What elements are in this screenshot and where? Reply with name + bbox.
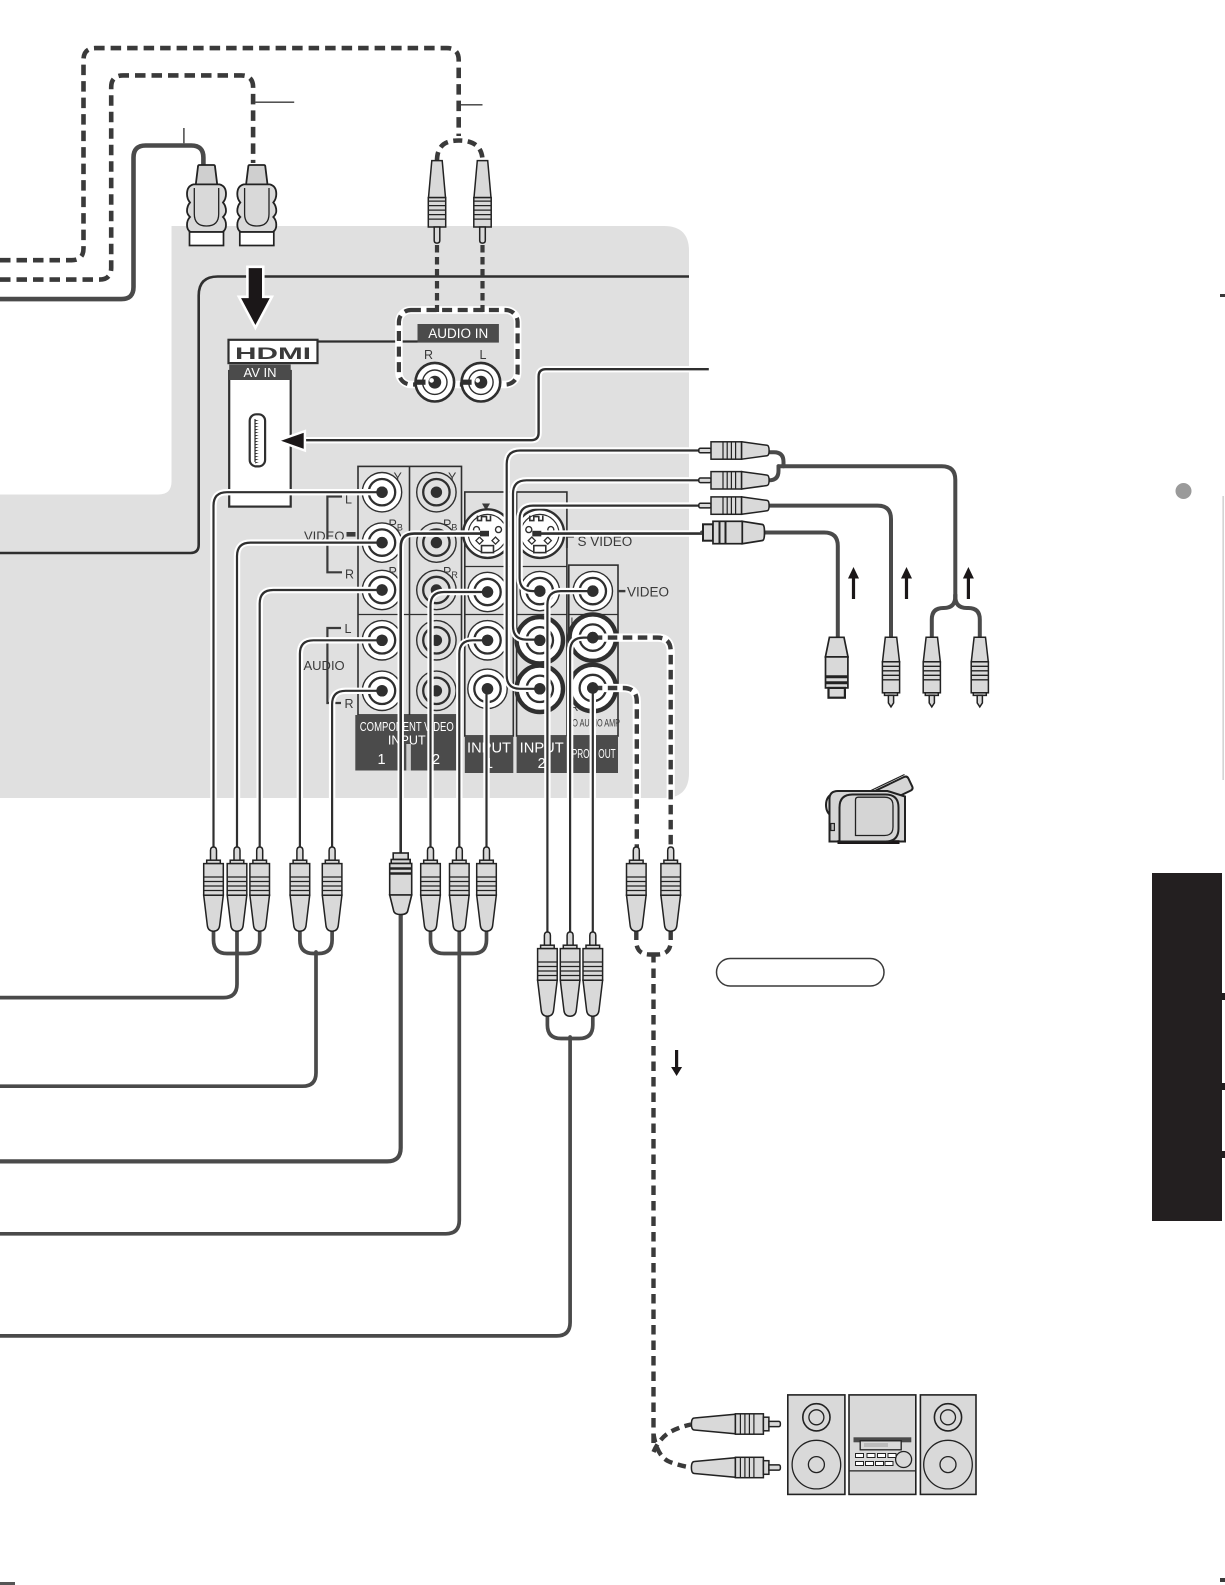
jack component2 PR: [417, 570, 456, 609]
dashed cable g5 left branch: [636, 931, 653, 955]
jack component2 Y: [417, 473, 456, 512]
cable prog out R to plug: [590, 688, 596, 932]
wire plug3 drop: [766, 506, 891, 638]
plug prog out dashed plug L: [661, 847, 681, 931]
plug input1 L plug: [450, 847, 470, 931]
svg-text:VIDEO: VIDEO: [627, 585, 669, 600]
dashed cable hdmi-dvd outer: [0, 48, 459, 260]
wire g4 merged: [0, 1037, 570, 1336]
audio in jack R: [416, 363, 455, 402]
plug S-video right (pointing left): [703, 521, 765, 543]
svg-text:AUDIO: AUDIO: [304, 658, 345, 673]
wire split right: [955, 595, 980, 638]
cable input1 s-video to plug: [401, 534, 488, 853]
plug prog out R plug: [583, 932, 603, 1016]
leader line 2: [461, 104, 483, 106]
callout line to HDMI port: [305, 369, 709, 440]
wire g3 left branch: [431, 930, 460, 954]
jack center dot c1Y: [376, 487, 387, 498]
plug audio plug L: [474, 161, 491, 244]
svg-text:INPUT: INPUT: [520, 741, 564, 757]
left arrow into HDMI port: [278, 431, 305, 450]
input2 box outline: [517, 492, 567, 736]
plug audio plug R: [428, 161, 445, 244]
jack prog out R: [570, 665, 616, 711]
s-video center pins: [480, 531, 489, 537]
plug plug to input2 R: [699, 442, 769, 459]
plug audio plug right L: [923, 637, 940, 707]
cable component1 L to plug: [300, 640, 384, 847]
wire g3 right branch: [459, 930, 486, 954]
jack component1 R: [362, 671, 401, 710]
big down arrow: [239, 267, 272, 328]
jack center dot i2V: [534, 585, 545, 596]
wire g2 merged: [0, 952, 316, 1086]
plug input1 R plug: [477, 847, 497, 931]
cable component1 R to plug: [332, 691, 384, 847]
cable component1 PR to plug: [260, 590, 384, 847]
svg-text:HDMI: HDMI: [235, 344, 311, 363]
jack input1 R: [468, 669, 507, 708]
wire g2 right branch: [316, 930, 332, 954]
white cutout top-left: [0, 220, 172, 495]
S-video jack input1 S-video: [463, 509, 512, 558]
jack center dot c1L: [376, 635, 387, 646]
wire g1 right branch: [237, 930, 260, 954]
jack center dot poL: [587, 632, 598, 643]
plug stereo plug lower: [691, 1457, 780, 1477]
svg-text:AUDIO IN: AUDIO IN: [428, 326, 488, 341]
svg-text:L: L: [345, 622, 352, 636]
plug HDMI connector 1: [187, 165, 226, 246]
svg-text:R: R: [345, 697, 354, 711]
jack input2 video: [520, 571, 559, 610]
up arrow 3: [963, 567, 974, 599]
jack center dot c1R: [376, 685, 387, 696]
cable input1 R to plug: [483, 689, 489, 847]
wire hdmi cable: [0, 146, 203, 300]
leader line HDMI badge to AUDIO IN: [318, 340, 418, 342]
wire g4 left branch: [547, 1015, 570, 1039]
wire g1 left branch: [214, 930, 238, 954]
dashed cable prog out L dashed: [593, 638, 671, 847]
dashed cable hdmi inner: [0, 75, 253, 279]
svg-text:COMPONENT VIDEO: COMPONENT VIDEO: [360, 720, 454, 734]
camcorder: [826, 775, 913, 845]
VIDEO bracket: [327, 497, 342, 573]
jack center dot i1V: [482, 586, 493, 597]
cable input1 video to plug: [431, 592, 488, 847]
plug S-video plug bottom: [390, 853, 412, 915]
prog out box outline: [569, 565, 618, 736]
plug S-video plug right: [825, 637, 848, 697]
jack input2 L: [517, 617, 563, 663]
wire split left: [932, 595, 956, 638]
dashed cable g5 merged drop: [651, 953, 655, 1448]
TV rear panel background: [0, 226, 689, 798]
dashed cable g5 right branch: [654, 931, 671, 955]
plug plug to input2 L: [699, 472, 769, 489]
dashed cable audio fork arc: [437, 141, 483, 162]
svg-text:AV IN: AV IN: [244, 365, 277, 380]
label bar INPUT 2: [517, 736, 567, 773]
dashed cable stereo branch lower: [654, 1434, 692, 1468]
note lozenge: [717, 959, 885, 987]
plug audio plug right R: [971, 637, 988, 707]
stereo right speaker: [920, 1395, 976, 1495]
plug HDMI connector 2: [237, 165, 276, 246]
jack component1 Y: [362, 473, 401, 512]
dashed cable audio stub L: [480, 245, 484, 312]
S-video jack input2 S-video: [516, 509, 565, 558]
cable prog out L solid stub: [570, 638, 593, 932]
wire plug1 elbow: [766, 452, 784, 466]
label bar COMPONENT VIDEO INPUT 1 2: [355, 715, 458, 771]
jack component1 PR: [362, 570, 401, 609]
wire g3 merged: [0, 930, 459, 1234]
cable component1 Y to plug: [214, 492, 385, 847]
jack component2 PB: [417, 523, 456, 562]
HDMI badge: [229, 340, 318, 363]
plug component1 R plug: [322, 847, 342, 931]
plug plug to input2 video: [699, 497, 769, 514]
jack center dot poV: [587, 585, 598, 596]
small down arrow: [671, 1050, 682, 1076]
cable prog out video to plug: [547, 591, 592, 932]
gray bullet dot: [1176, 483, 1192, 499]
input1 box outline: [465, 492, 514, 736]
jack center dot i1R: [482, 683, 493, 694]
jack center dot i1L: [482, 635, 493, 646]
AV IN bar: [229, 365, 291, 381]
cable input1 L to plug: [459, 640, 487, 847]
wire g1 merged: [0, 930, 237, 998]
wire svideo right drop: [702, 533, 838, 639]
plug prog out dashed plug R: [627, 847, 647, 931]
jack center dot c1PR: [376, 584, 387, 595]
component input box outline: [358, 466, 462, 715]
jack center dot i2L: [534, 635, 545, 646]
plug input1 video plug: [421, 847, 441, 931]
jack prog out L: [570, 614, 616, 660]
wire plug2 elbow: [766, 466, 779, 480]
side tab text slivers: [1222, 993, 1225, 1000]
cable right plug1 to input2 R: [507, 451, 700, 689]
stereo left speaker: [788, 1395, 845, 1495]
label bar PROG OUT: [570, 736, 619, 773]
plug prog out L plug: [560, 932, 580, 1016]
jack input1 video: [468, 572, 507, 611]
jack component2 L: [417, 621, 456, 660]
jack component1 L: [362, 621, 401, 660]
AUDIO IN dashed outline: [399, 310, 518, 385]
plug component1 L plug: [290, 847, 310, 931]
TV rear outline top edge: [0, 277, 689, 554]
cable right plug2 to input2 L: [513, 480, 700, 639]
label bar INPUT 1: [465, 736, 514, 773]
jack center dot c1PB: [376, 537, 387, 548]
dashed cable audio stub R: [435, 245, 439, 312]
wire plug12 drop: [779, 466, 956, 599]
right page edge line: [1223, 496, 1224, 780]
jack center dot poL2: [587, 632, 598, 643]
cable right plug3 to input2 video: [520, 506, 700, 591]
cable component1 PB to plug: [237, 543, 384, 847]
VIDEO (prog out) label tick: [618, 590, 625, 592]
jack component2 R: [417, 671, 456, 710]
audio in jack L: [462, 363, 501, 402]
stereo center unit: [849, 1395, 916, 1495]
AUDIO bracket: [327, 628, 341, 703]
up arrow 2: [901, 567, 912, 599]
jack center dot poR2: [587, 682, 598, 693]
svg-text:INPUT: INPUT: [388, 734, 426, 748]
HDMI port: [250, 414, 265, 466]
plug component1 Y plug: [204, 847, 224, 931]
plug prog out video plug: [538, 932, 558, 1016]
jack prog out video: [573, 571, 612, 610]
black side tab: [1152, 873, 1222, 1221]
leader tick vertical: [183, 128, 185, 143]
svg-text:1: 1: [377, 752, 385, 768]
dashed cable stereo branch upper: [654, 1425, 692, 1453]
svg-text:R: R: [345, 568, 354, 582]
jack input2 R: [517, 666, 563, 712]
jack input1 L: [468, 621, 507, 660]
svg-text:L: L: [480, 348, 487, 362]
input1 triangle marker: [482, 504, 490, 511]
leader line 1: [255, 101, 294, 103]
S VIDEO label tick: [567, 537, 574, 548]
dashed cable prog out R dashed: [593, 688, 637, 847]
wire g4 right branch: [570, 1015, 593, 1039]
Y PB PR labels column1: [389, 471, 459, 581]
jack center dot poR: [587, 682, 598, 693]
cable input2 s-video to right plug: [540, 530, 702, 536]
AUDIO IN label bar: [418, 324, 499, 343]
up arrow 1: [848, 567, 859, 599]
plug component1 PR plug: [250, 847, 270, 931]
AV IN white recess: [229, 371, 291, 507]
wire g2 left branch: [300, 930, 316, 954]
plug stereo plug upper: [691, 1414, 780, 1434]
wire svideo merged: [0, 911, 401, 1161]
jack component1 PB: [362, 523, 401, 562]
plug component1 PB plug: [227, 847, 247, 931]
svg-text:R: R: [424, 348, 433, 362]
jack center dot i2R: [534, 683, 545, 694]
plug video plug right: [882, 637, 899, 707]
